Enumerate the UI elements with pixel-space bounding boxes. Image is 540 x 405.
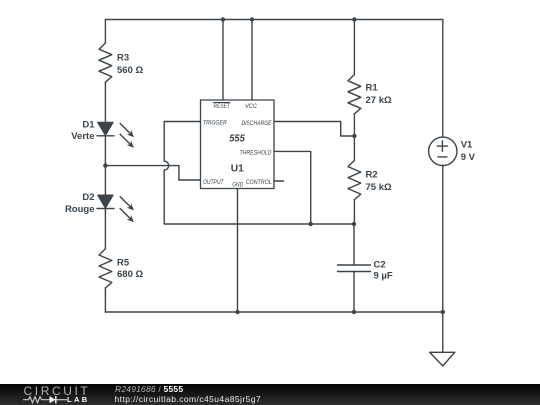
label R2 value [366, 170, 392, 194]
node R2/C2 junction [352, 222, 356, 226]
wire CONTROL stub [274, 180, 284, 182]
footer schematic id [115, 384, 183, 394]
label U1 pins [203, 103, 272, 189]
wire C2 to bottom rail [353, 272, 355, 313]
wire R1 bottom to junction [353, 114, 355, 161]
label R5 value [117, 258, 143, 281]
label C2 value [374, 260, 393, 282]
node threshold/trigger junction [309, 222, 313, 226]
svg-text:U1: U1 [231, 163, 244, 175]
svg-text:V1: V1 [461, 140, 473, 151]
svg-text:D2: D2 [82, 192, 94, 203]
label D2 [65, 192, 95, 215]
svg-text:OUTPUT: OUTPUT [203, 179, 224, 186]
LED D2 [97, 195, 134, 222]
LED D1 [97, 123, 134, 148]
node output net at LEDs [103, 163, 107, 167]
wire top supply rail [105, 20, 442, 138]
wire D1 to D2 through output node [104, 136, 106, 195]
svg-text:9 µF: 9 µF [374, 271, 393, 282]
wire R1 top to rail [353, 20, 355, 75]
node V1/ground on bottom rail [441, 310, 445, 314]
resistor R5 [99, 249, 112, 288]
label V1 value [461, 140, 476, 164]
svg-text:R3: R3 [117, 53, 129, 64]
svg-text:C2: C2 [374, 260, 386, 271]
svg-text:THRESHOLD: THRESHOLD [240, 150, 272, 157]
wire D2 to R5 [104, 209, 106, 249]
svg-text:555: 555 [229, 134, 245, 145]
label R3 value [117, 53, 143, 77]
node on top rail at R1 [352, 17, 356, 21]
resistor R2 [348, 160, 361, 199]
svg-text:R2: R2 [366, 170, 378, 181]
label R1 value [366, 83, 392, 107]
pin RESET overline [214, 102, 230, 104]
node on top rail at VCC [250, 17, 254, 21]
ground [430, 352, 455, 366]
node R1/R2 discharge junction [352, 134, 356, 138]
resistor R1 [348, 75, 361, 114]
wire GND pin down [237, 189, 239, 313]
voltage source V1 [429, 137, 457, 165]
svg-text:DISCHARGE: DISCHARGE [242, 120, 272, 127]
svg-text:9 V: 9 V [461, 152, 476, 163]
capacitor C2 [338, 265, 371, 272]
svg-text:R5: R5 [117, 258, 130, 269]
label D1 [71, 120, 95, 143]
wire R5 to bottom rail [104, 288, 106, 312]
wire R3 to D1 [104, 82, 106, 122]
wire R2 bottom to threshold rail [353, 200, 355, 224]
wire output net: node to OUTPUT pin [105, 166, 200, 180]
wire THRESHOLD down [274, 151, 311, 224]
logo CIRCUIT text [24, 385, 91, 397]
svg-text:Verte: Verte [71, 131, 94, 142]
node on top rail at RESET [221, 17, 225, 21]
footer url [115, 394, 262, 404]
op-amp U1 555 box [201, 100, 275, 189]
logo LAB text [67, 396, 90, 404]
svg-text:R1: R1 [366, 83, 379, 94]
svg-text:560 Ω: 560 Ω [117, 65, 143, 76]
wire RESET pin to top rail [222, 20, 224, 101]
svg-text:680 Ω: 680 Ω [117, 269, 143, 280]
svg-text:75 kΩ: 75 kΩ [366, 182, 392, 193]
wire V1 to bottom rail and ground [442, 166, 444, 353]
svg-text:TRIGGER: TRIGGER [203, 120, 227, 127]
resistor R3 [99, 43, 112, 82]
svg-text:Rouge: Rouge [65, 204, 95, 215]
logo resistor-diode glyph [23, 395, 69, 405]
wire DISCHARGE to R1/R2 junction [274, 122, 354, 137]
svg-text:RESET: RESET [214, 103, 231, 110]
wire threshold rail to C2 [353, 224, 355, 265]
svg-text:27 kΩ: 27 kΩ [366, 95, 392, 106]
wire trigger net vertical with hop [164, 122, 311, 225]
footer bar [0, 384, 540, 405]
svg-text:CONTROL: CONTROL [246, 179, 272, 186]
node GND on bottom rail [235, 310, 239, 314]
wire bottom ground rail [105, 311, 442, 313]
wire threshold rail to R2/C2 junction [311, 223, 354, 225]
svg-text:GND: GND [232, 183, 244, 189]
wire VCC pin to top rail [251, 20, 253, 101]
node C2 on bottom rail [352, 310, 356, 314]
svg-text:D1: D1 [82, 120, 95, 131]
svg-text:VCC: VCC [245, 103, 257, 110]
